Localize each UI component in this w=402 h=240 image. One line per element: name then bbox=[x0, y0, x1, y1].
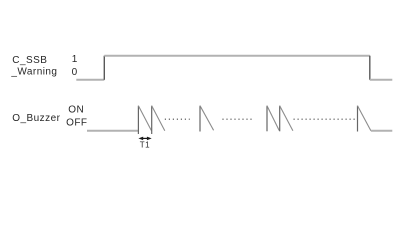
svg-text:C_SSB: C_SSB bbox=[12, 55, 47, 66]
buzzer pulse 5 decay ramp bbox=[280, 106, 293, 131]
buzzer pulse 6 rising edge bbox=[357, 106, 359, 132]
signal label C_SSB_Warning bbox=[10, 55, 57, 77]
dotted continuation segment 2 bbox=[222, 118, 253, 120]
buzzer pulse 2 rising edge bbox=[151, 106, 153, 134]
wire C_SSB rising edge bbox=[103, 56, 105, 80]
buzzer pulse 2 decay ramp bbox=[152, 106, 165, 131]
buzzer pulse 1 decay ramp bbox=[138, 106, 151, 131]
svg-text:0: 0 bbox=[72, 67, 78, 78]
wire O_Buzzer OFF segment right bbox=[371, 130, 392, 132]
wire O_Buzzer OFF segment left bbox=[87, 130, 138, 132]
dimension arrow T1 span bbox=[138, 137, 151, 141]
dotted continuation segment 1 bbox=[165, 118, 190, 120]
buzzer pulse 6 decay ramp bbox=[358, 106, 371, 131]
buzzer pulse 4 decay ramp bbox=[267, 106, 279, 131]
wire C_SSB low segment left bbox=[76, 79, 104, 81]
buzzer pulse 4 rising edge bbox=[266, 106, 268, 132]
svg-text:ON: ON bbox=[68, 105, 84, 116]
svg-text:1: 1 bbox=[72, 54, 78, 65]
wire C_SSB low segment right bbox=[370, 79, 393, 81]
svg-text:O_Buzzer: O_Buzzer bbox=[12, 113, 60, 124]
buzzer pulse 3 decay ramp bbox=[200, 106, 214, 131]
dotted continuation segment 3 bbox=[294, 118, 357, 120]
wire C_SSB falling edge bbox=[369, 56, 371, 80]
wire C_SSB high segment bbox=[104, 55, 370, 57]
buzzer pulse 1 rising edge bbox=[137, 106, 139, 134]
buzzer pulse 3 rising edge bbox=[199, 106, 201, 132]
svg-text:OFF: OFF bbox=[66, 118, 87, 129]
svg-text:_Warning: _Warning bbox=[10, 67, 57, 78]
buzzer pulse 5 rising edge bbox=[279, 106, 281, 132]
svg-text:T1: T1 bbox=[140, 141, 150, 150]
